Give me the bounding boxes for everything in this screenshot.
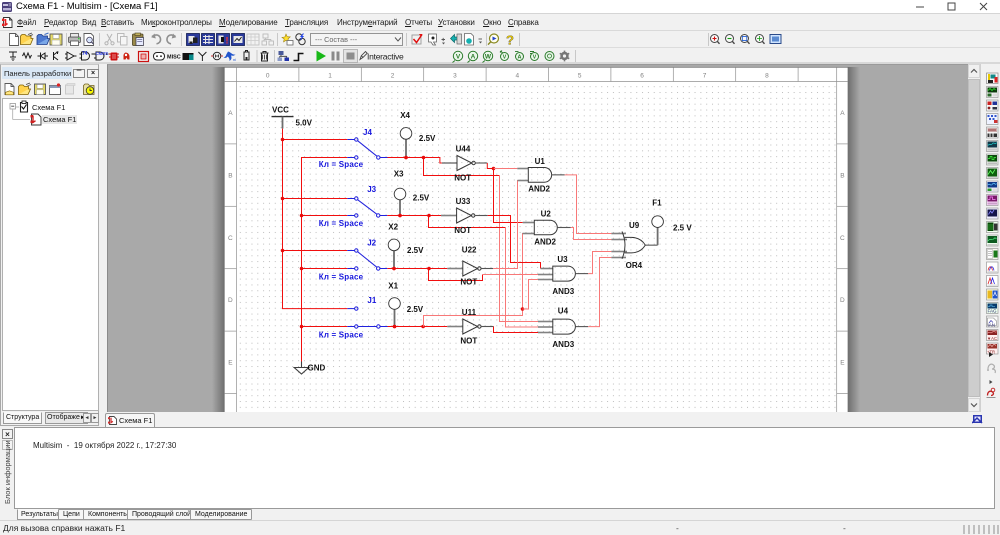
svg-text:X3: X3	[394, 170, 404, 179]
node GND-J1	[300, 325, 304, 329]
pause	[332, 52, 335, 61]
pin U33 out	[475, 215, 488, 217]
svg-text:8: 8	[765, 73, 769, 80]
gate U9 OR4	[622, 232, 625, 259]
svg-text:2.5 V: 2.5 V	[673, 224, 692, 233]
xfmr	[296, 34, 302, 40]
svg-text:4: 4	[515, 73, 519, 80]
svg-text:NOT: NOT	[454, 226, 471, 235]
wire X2 drop to U3.in2	[429, 269, 483, 281]
white page	[224, 67, 848, 413]
capture arrow	[429, 34, 437, 45]
svg-text:OR4: OR4	[626, 261, 643, 270]
svg-text:NOT: NOT	[460, 337, 477, 346]
gate U11 NOT	[463, 319, 481, 334]
wire U44 to U2.in1	[494, 169, 523, 223]
zoom group	[708, 33, 710, 46]
lamp F1	[652, 199, 693, 246]
svg-text:!: !	[226, 36, 229, 46]
svg-text:A: A	[228, 110, 233, 117]
wire X1 branch to U3.in3	[523, 280, 539, 310]
svg-text:IAN: IAN	[988, 323, 996, 328]
svg-text:D: D	[840, 297, 845, 304]
pin U2 inputs	[523, 222, 535, 224]
svg-text:2.5V: 2.5V	[413, 193, 430, 202]
svg-text:Кл = Space: Кл = Space	[319, 272, 364, 281]
svg-text:C: C	[840, 235, 845, 242]
inner frame lines	[224, 67, 848, 413]
lamp X1	[388, 282, 424, 327]
node U44 out	[492, 167, 496, 171]
paste	[133, 34, 144, 46]
pin U4 out	[575, 326, 588, 328]
svg-text:E: E	[228, 360, 233, 367]
ground	[294, 362, 309, 375]
svg-text:V: V	[503, 55, 507, 61]
wire U1 out to OR4.in1	[565, 175, 612, 234]
svg-text:6: 6	[640, 73, 644, 80]
svg-text:U2: U2	[541, 210, 552, 219]
pin U1 out	[552, 174, 565, 176]
svg-text:X4: X4	[400, 111, 410, 120]
svg-text:5: 5	[578, 73, 582, 80]
svg-text:A: A	[840, 110, 845, 117]
wire GND branch J2	[302, 268, 348, 270]
lamp X4	[400, 111, 436, 158]
pin U22 input	[447, 268, 463, 270]
node VCC-J4	[281, 138, 285, 142]
svg-text:U4: U4	[558, 306, 569, 315]
gate U44 NOT	[457, 156, 475, 171]
navy grid icons	[187, 34, 245, 46]
node X4 stem	[404, 156, 408, 160]
open yellow	[21, 39, 34, 45]
svg-text:NOT: NOT	[460, 278, 477, 287]
svg-text:Кл = Space: Кл = Space	[319, 219, 364, 228]
svg-text:J2: J2	[367, 238, 376, 247]
pin U11 input	[447, 326, 463, 328]
svg-text:7: 7	[703, 73, 707, 80]
wire U33 out to U3.in1	[488, 216, 541, 269]
disabled table	[247, 34, 259, 45]
op U44 input pin	[442, 162, 457, 164]
combo box	[311, 34, 403, 46]
svg-text:0: 0	[266, 73, 270, 80]
svg-text:▼AC: ▼AC	[987, 336, 997, 341]
svg-text:F1: F1	[652, 199, 662, 208]
svg-text:2.5V: 2.5V	[407, 246, 424, 255]
svg-text:U22: U22	[462, 245, 477, 254]
gate U1 AND2	[528, 168, 551, 183]
svg-text:AND2: AND2	[534, 237, 556, 246]
svg-text:AND3: AND3	[552, 340, 574, 349]
svg-text:3: 3	[453, 73, 457, 80]
wire U22 out to U1.in2	[493, 181, 528, 269]
svg-text:ni: ni	[233, 57, 236, 62]
switch J3	[347, 197, 387, 217]
wire VCC branch J3	[283, 198, 348, 200]
svg-text:FAG: FAG	[988, 309, 998, 314]
svg-text:J4: J4	[363, 128, 372, 137]
probes	[453, 51, 570, 63]
copy (disabled)	[118, 34, 128, 46]
svg-text:E: E	[840, 360, 845, 367]
doc teal	[465, 34, 474, 46]
svg-text:74: 74	[82, 51, 88, 57]
gate U33 NOT	[457, 208, 475, 223]
pin U3 out	[575, 273, 588, 275]
svg-text:MISC: MISC	[167, 55, 181, 61]
pin U11 out	[481, 326, 494, 328]
svg-text:2.5V: 2.5V	[407, 305, 424, 314]
wire U44 to U1.in1	[494, 168, 518, 170]
interactive	[360, 52, 367, 60]
svg-text:Кл = Space: Кл = Space	[319, 160, 364, 169]
svg-text:NOT: NOT	[454, 173, 471, 182]
wire GND branch J3	[302, 215, 348, 217]
svg-text:5.0V: 5.0V	[296, 118, 313, 127]
svg-text:AND2: AND2	[528, 185, 550, 194]
gate U3 AND3	[553, 266, 576, 281]
pin OR4 out	[645, 244, 657, 246]
svg-text:U1: U1	[535, 157, 546, 166]
find example	[490, 34, 499, 43]
wire U11 out to U4.in3	[494, 327, 539, 333]
wire X4 drop to U4.in1	[424, 158, 500, 176]
pin U4 inputs	[538, 321, 553, 323]
svg-text:2: 2	[391, 73, 395, 80]
power VCC	[272, 106, 294, 129]
svg-text:X1: X1	[388, 282, 398, 291]
svg-text:Кл = Space: Кл = Space	[319, 331, 364, 340]
svg-text:B: B	[840, 172, 844, 179]
wire X1 rise to U2.in2	[424, 234, 535, 327]
play	[317, 51, 327, 62]
wire J4 row	[388, 158, 442, 164]
node X1 stem	[393, 325, 397, 329]
node GND-J2	[300, 267, 304, 271]
wire GND rail	[302, 158, 348, 362]
preview	[84, 34, 94, 46]
svg-text:W: W	[485, 53, 492, 60]
new	[10, 34, 19, 46]
svg-text:U9: U9	[629, 221, 640, 230]
svg-text:V: V	[456, 53, 461, 60]
svg-text:2.5V: 2.5V	[419, 134, 436, 143]
svg-text:A: A	[471, 53, 476, 60]
wire U44 out	[487, 163, 493, 169]
pin U3 inputs	[541, 268, 553, 270]
pin OR4 inputs	[611, 233, 626, 235]
pin U1 inputs	[517, 168, 528, 170]
cut (disabled)	[105, 34, 114, 45]
star-box	[282, 34, 290, 42]
wire J1 row	[388, 326, 448, 328]
svg-text:B: B	[228, 172, 232, 179]
switch J2	[347, 249, 387, 270]
ERC red check	[412, 35, 421, 44]
wire X3 drop to U4.in2	[429, 216, 506, 228]
back teal	[451, 35, 461, 43]
lamp X2	[388, 223, 424, 269]
node X1 branch	[521, 307, 525, 311]
svg-text:J3: J3	[367, 185, 376, 194]
stop pressed	[344, 50, 358, 63]
svg-text:AND3: AND3	[552, 287, 574, 296]
gate U22 NOT	[463, 261, 481, 276]
svg-text:D: D	[228, 297, 233, 304]
open blue	[37, 39, 50, 45]
pin U44 out	[475, 162, 487, 164]
page shadow bands	[212, 67, 224, 413]
svg-text:CMOS: CMOS	[96, 51, 109, 56]
svg-text:V: V	[533, 55, 537, 61]
wire U4 out to OR4.in4	[588, 258, 611, 327]
undo	[152, 35, 161, 44]
pin U22 out	[481, 268, 493, 270]
ruler numbers and letters	[228, 73, 845, 367]
save	[50, 34, 62, 45]
node dots top layer	[392, 156, 408, 329]
node GND-J3	[300, 214, 304, 218]
node VCC-J2	[281, 249, 285, 253]
wire J2 row	[387, 268, 447, 270]
svg-text:X2: X2	[388, 223, 398, 232]
svg-text:1: 1	[328, 73, 332, 80]
wire J3 row	[387, 215, 441, 217]
wire U3 out to OR4.in3	[588, 252, 611, 274]
svg-text:A: A	[518, 55, 522, 61]
wire U2 out to OR4.in2	[571, 228, 612, 240]
svg-text:?: ?	[506, 33, 514, 48]
hierarchy	[279, 51, 284, 55]
node X3 stem	[398, 214, 402, 218]
svg-text:U44: U44	[456, 145, 471, 154]
component group icons	[9, 52, 77, 61]
wire VCC rail	[283, 129, 348, 309]
node VCC-J3	[281, 197, 285, 201]
svg-text:GND: GND	[308, 364, 326, 373]
svg-text:U33: U33	[456, 197, 471, 206]
switch J1	[347, 307, 387, 328]
wire GND branch J1	[302, 326, 348, 328]
gate U2 AND2	[534, 220, 557, 235]
svg-text:U11: U11	[462, 308, 477, 317]
svg-text:U3: U3	[557, 255, 568, 264]
redo	[167, 35, 176, 44]
gate U4 AND3	[553, 319, 576, 334]
pin U2 out	[557, 227, 571, 229]
trash	[261, 52, 269, 62]
wire VCC branch J2	[283, 250, 348, 252]
svg-text:J1: J1	[367, 296, 376, 305]
bus branch	[294, 54, 304, 61]
svg-text:VCC: VCC	[272, 106, 289, 115]
node X2 stem	[392, 267, 396, 271]
node J1 rise	[421, 325, 425, 329]
node J2 drop	[427, 267, 431, 271]
print	[69, 37, 81, 43]
svg-text:C: C	[228, 235, 233, 242]
node J3 drop	[427, 214, 431, 218]
pin U33 input	[441, 215, 457, 217]
svg-text:Interactive: Interactive	[367, 51, 404, 61]
disabled hier	[262, 34, 274, 45]
switch J4	[347, 138, 387, 159]
wire VCC branch J4	[283, 139, 348, 141]
grid dots	[237, 82, 837, 413]
svg-text:--- Состав ---: --- Состав ---	[315, 35, 358, 44]
node J4 drop	[422, 156, 426, 160]
lamp X3	[394, 170, 430, 216]
